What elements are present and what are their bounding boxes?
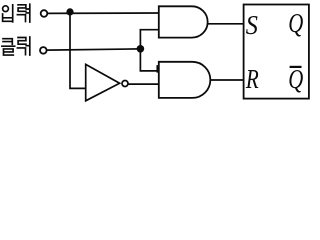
- AND gate U2 (bottom): [159, 62, 211, 98]
- wire: inverter output to AND2 bottom input: [128, 83, 159, 85]
- wire: input branch down to inverter: [70, 13, 86, 88]
- wire: clock branch up to AND1 bottom input: [140, 30, 158, 49]
- wire: clock terminal to junction: [47, 49, 141, 50]
- AND gate U1 (top): [159, 6, 208, 37]
- svg-text:Q: Q: [288, 9, 303, 38]
- label 클럭 (clock): [2, 37, 30, 55]
- junction: input node: [66, 8, 73, 15]
- SR latch box: [244, 5, 309, 99]
- pin label Q-bar: [288, 66, 303, 95]
- svg-text:R: R: [245, 64, 259, 94]
- label 입력 (input): [3, 4, 30, 22]
- svg-text:S: S: [246, 10, 258, 40]
- svg-text:Q: Q: [288, 66, 303, 95]
- input terminal: [41, 10, 48, 17]
- wire: AND2 output to R: [210, 79, 243, 81]
- wire: AND1 output to S: [208, 23, 244, 25]
- wire: clock branch down to AND2 top input (with jog): [140, 49, 158, 73]
- wire: input terminal to AND1 top input: [47, 12, 159, 14]
- inverter (NOT gate): [86, 64, 128, 100]
- junction: clock node: [137, 45, 145, 53]
- clock terminal: [40, 47, 47, 54]
